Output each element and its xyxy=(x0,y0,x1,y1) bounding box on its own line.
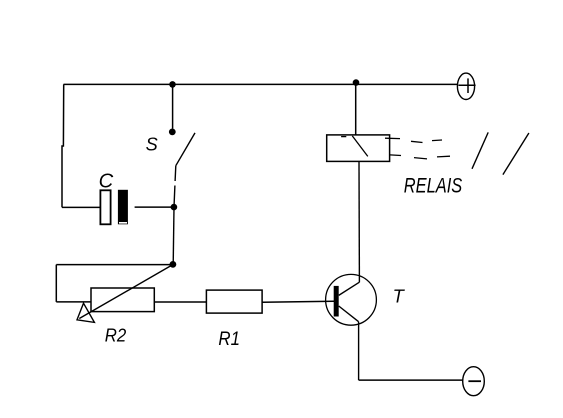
relay contact 2 xyxy=(503,133,529,175)
potentiometer R2 wiper arrowhead xyxy=(77,303,94,322)
relay linkage lower dashed line xyxy=(390,155,450,159)
svg-text:C: C xyxy=(99,170,114,192)
minus terminal xyxy=(463,367,485,396)
label R2 xyxy=(105,325,127,346)
wire top node to switch contact xyxy=(172,84,174,128)
label S xyxy=(146,134,158,154)
resistor R1 xyxy=(206,290,262,313)
label C xyxy=(99,170,114,192)
node lower junction xyxy=(170,261,177,268)
switch S blade xyxy=(176,133,195,166)
wire emitter down xyxy=(358,322,360,380)
transistor T emitter lead xyxy=(339,306,359,322)
wire capacitor to node xyxy=(135,206,171,208)
potentiometer R2 wiper xyxy=(79,264,173,318)
wire top rail xyxy=(64,83,459,85)
wire relay top xyxy=(355,84,357,134)
wire to capacitor left plate xyxy=(62,206,101,208)
wire into R2 left terminal xyxy=(56,301,91,303)
relay coil inner dash xyxy=(341,136,346,138)
label T xyxy=(393,286,406,307)
relay coil RELAIS body xyxy=(327,135,390,162)
relay coil diagonal xyxy=(352,136,368,157)
wire R1 to transistor base xyxy=(262,301,334,302)
relay contact 1 xyxy=(472,132,488,168)
plus terminal xyxy=(457,73,475,99)
wire lower node to left xyxy=(56,264,173,266)
potentiometer R2 body xyxy=(91,288,154,312)
wire R2 to R1 xyxy=(154,301,206,303)
node top rail left junction xyxy=(169,81,176,88)
label RELAIS xyxy=(404,173,463,196)
wire capacitor node down to lower node xyxy=(172,207,175,264)
svg-text:T: T xyxy=(393,286,406,307)
relay linkage upper dashed line xyxy=(385,138,442,142)
node capacitor junction xyxy=(171,204,178,211)
svg-text:R1: R1 xyxy=(218,328,240,349)
transistor T collector lead xyxy=(339,282,360,295)
capacitor C xyxy=(100,190,128,225)
transistor T circle xyxy=(326,274,377,325)
wire switch to capacitor node xyxy=(174,166,176,207)
transistor T base bar xyxy=(334,286,339,317)
node top rail relay junction xyxy=(353,79,360,86)
label R1 xyxy=(218,328,240,349)
wire left drop to R2 xyxy=(55,265,57,302)
wire relay bottom to collector xyxy=(358,161,360,282)
svg-text:S: S xyxy=(146,134,158,154)
wire bottom rail xyxy=(359,379,464,381)
switch S contact dot xyxy=(169,129,176,136)
wire left vertical xyxy=(62,84,64,207)
svg-text:R2: R2 xyxy=(105,325,127,346)
svg-text:RELAIS: RELAIS xyxy=(404,173,463,196)
